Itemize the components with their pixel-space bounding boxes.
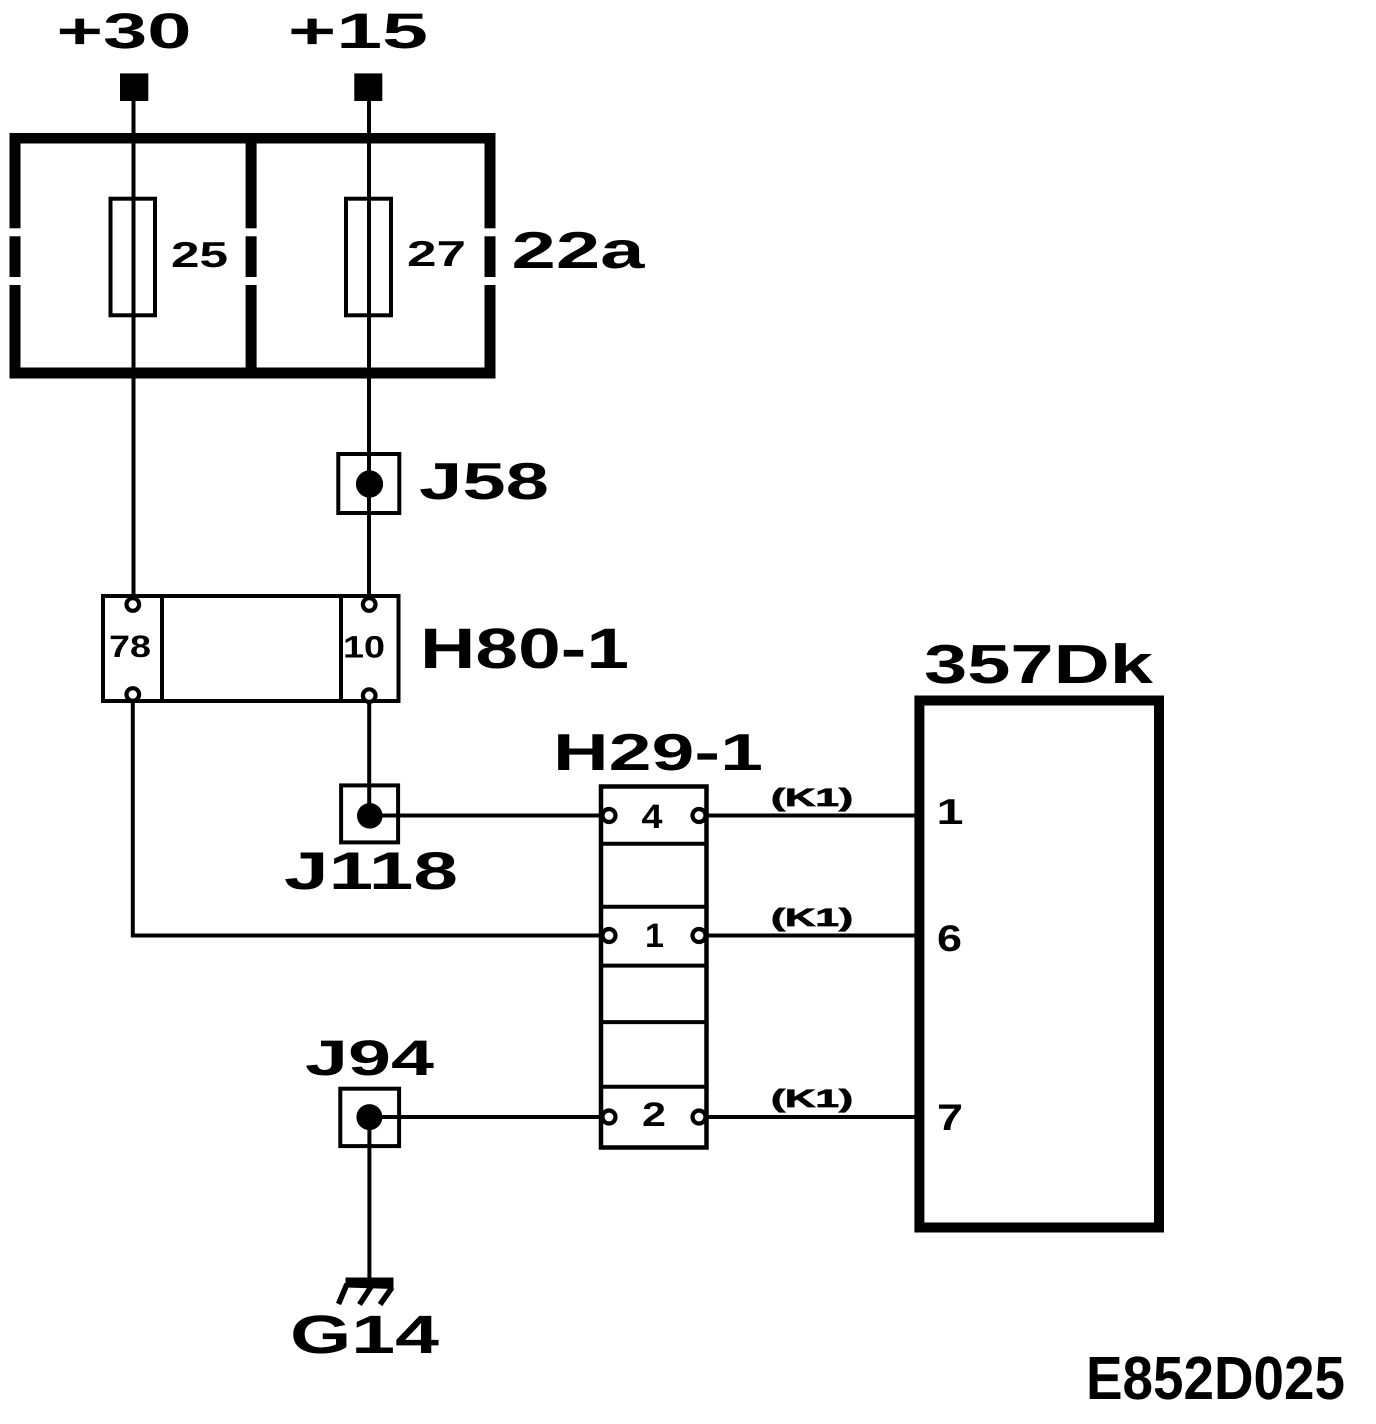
svg-text:E852D025: E852D025 [1086, 1344, 1345, 1412]
svg-text:6: 6 [937, 918, 962, 959]
svg-text:4: 4 [642, 798, 663, 836]
svg-text:1: 1 [937, 791, 964, 832]
svg-text:22a: 22a [512, 222, 647, 280]
svg-text:7: 7 [937, 1097, 963, 1138]
svg-text:(K1): (K1) [771, 1085, 853, 1113]
svg-text:J94: J94 [305, 1030, 434, 1086]
svg-text:+15: +15 [288, 3, 428, 59]
svg-text:G14: G14 [290, 1305, 439, 1365]
svg-text:27: 27 [407, 233, 466, 274]
svg-text:78: 78 [109, 629, 151, 664]
svg-text:(K1): (K1) [771, 784, 853, 812]
svg-text:H80-1: H80-1 [420, 617, 629, 681]
svg-text:+30: +30 [57, 3, 192, 59]
svg-text:1: 1 [645, 917, 664, 955]
svg-text:10: 10 [343, 630, 385, 665]
svg-text:H29-1: H29-1 [553, 724, 763, 782]
svg-text:2: 2 [642, 1096, 666, 1134]
svg-text:J118: J118 [284, 842, 458, 901]
svg-text:(K1): (K1) [771, 904, 853, 932]
svg-text:J58: J58 [419, 453, 549, 511]
svg-text:357Dk: 357Dk [924, 633, 1154, 695]
svg-text:25: 25 [171, 234, 228, 275]
